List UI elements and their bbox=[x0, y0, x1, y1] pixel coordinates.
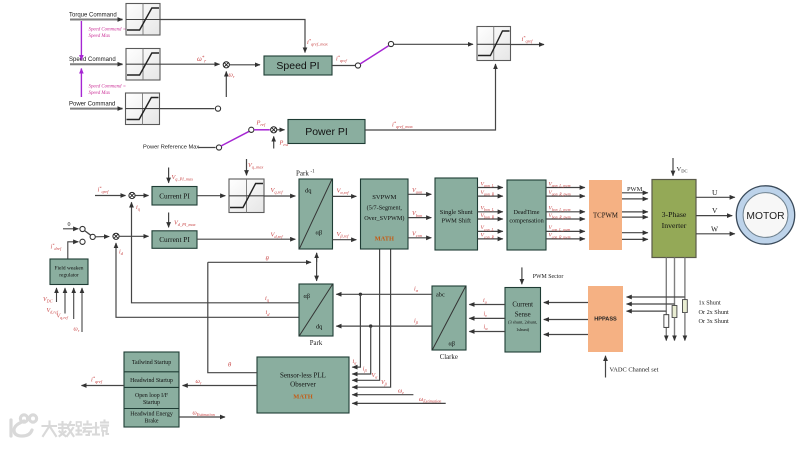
svg-text:Speed Command =: Speed Command = bbox=[89, 85, 127, 90]
svg-text:Sense: Sense bbox=[515, 312, 531, 319]
svg-text:iu: iu bbox=[483, 298, 487, 305]
svg-text:Headwind Energy: Headwind Energy bbox=[130, 412, 173, 418]
svg-text:Vq,ref: Vq,ref bbox=[271, 187, 284, 196]
svg-text:Pest: Pest bbox=[279, 140, 289, 148]
svg-text:iv: iv bbox=[484, 311, 488, 318]
svg-text:Vd_PI_max: Vd_PI_max bbox=[174, 220, 196, 228]
svg-text:iw: iw bbox=[484, 324, 489, 331]
svg-text:Vbon: Vbon bbox=[412, 210, 422, 218]
svg-text:V: V bbox=[712, 206, 718, 215]
svg-text:Current PI: Current PI bbox=[159, 235, 190, 244]
svg-text:Vaon: Vaon bbox=[412, 187, 422, 195]
svg-text:Pref: Pref bbox=[256, 120, 266, 128]
svg-text:i*qref_max: i*qref_max bbox=[307, 38, 328, 47]
svg-text:U: U bbox=[712, 188, 718, 197]
svg-text:(5/7-Segment,: (5/7-Segment, bbox=[367, 205, 403, 212]
svg-text:-1: -1 bbox=[311, 170, 316, 175]
svg-text:iβ: iβ bbox=[414, 317, 419, 325]
svg-text:Field weaken: Field weaken bbox=[55, 266, 84, 272]
svg-text:i*qref: i*qref bbox=[522, 35, 534, 44]
svg-text:SVPWM: SVPWM bbox=[372, 194, 396, 201]
svg-text:DeadTime: DeadTime bbox=[514, 209, 540, 216]
svg-text:αβ: αβ bbox=[316, 230, 323, 237]
svg-text:dq: dq bbox=[305, 188, 312, 195]
svg-text:Open loop I/F: Open loop I/F bbox=[135, 393, 169, 399]
svg-text:MOTOR: MOTOR bbox=[746, 211, 784, 222]
svg-text:W: W bbox=[711, 224, 719, 233]
svg-text:Current PI: Current PI bbox=[159, 192, 190, 201]
svg-text:abc: abc bbox=[436, 292, 445, 299]
svg-text:id: id bbox=[266, 309, 271, 317]
svg-text:VDC: VDC bbox=[677, 166, 688, 174]
svg-text:θ: θ bbox=[228, 362, 232, 369]
svg-text:Vβ: Vβ bbox=[381, 380, 388, 387]
svg-text:1shunt): 1shunt) bbox=[516, 327, 530, 332]
svg-text:id: id bbox=[119, 249, 124, 257]
svg-text:Observer: Observer bbox=[290, 381, 316, 389]
svg-text:Vq_PI_max: Vq_PI_max bbox=[172, 174, 194, 182]
svg-text:PWM Sector: PWM Sector bbox=[533, 274, 564, 280]
svg-text:i*qref: i*qref bbox=[91, 375, 103, 384]
svg-text:Vaon_L_pwm: Vaon_L_pwm bbox=[549, 181, 571, 188]
svg-text:Headwind Startup: Headwind Startup bbox=[130, 378, 173, 384]
svg-text:Vaon_L: Vaon_L bbox=[481, 181, 494, 188]
svg-text:Speed Max: Speed Max bbox=[89, 91, 111, 96]
svg-text:ωEstimation: ωEstimation bbox=[419, 397, 441, 404]
svg-text:i*qref: i*qref bbox=[98, 185, 110, 194]
svg-text:ωe: ωe bbox=[398, 388, 404, 395]
svg-text:Brake: Brake bbox=[144, 418, 158, 424]
svg-text:i*qref_max: i*qref_max bbox=[392, 120, 413, 129]
svg-text:Park: Park bbox=[296, 170, 309, 178]
svg-text:ωEstimation: ωEstimation bbox=[193, 411, 215, 418]
svg-text:PWM Shift: PWM Shift bbox=[442, 218, 472, 225]
svg-text:Sensor-less PLL: Sensor-less PLL bbox=[280, 372, 326, 380]
svg-text:Torque Command: Torque Command bbox=[69, 13, 117, 19]
svg-text:0: 0 bbox=[68, 222, 71, 228]
svg-text:MATH: MATH bbox=[375, 236, 394, 243]
svg-text:Vα: Vα bbox=[372, 373, 379, 380]
svg-text:Vcon_L: Vcon_L bbox=[481, 225, 494, 232]
svg-text:TCPWM: TCPWM bbox=[593, 213, 618, 220]
svg-text:Vβ,ref: Vβ,ref bbox=[337, 231, 350, 240]
svg-text:Or 2x Shunt: Or 2x Shunt bbox=[699, 309, 730, 316]
svg-text:ω*r: ω*r bbox=[197, 56, 206, 65]
svg-text:3-Phase: 3-Phase bbox=[662, 210, 687, 219]
svg-text:Vq,ref: Vq,ref bbox=[57, 314, 69, 322]
svg-text:Startup: Startup bbox=[143, 400, 160, 406]
svg-text:Vcon: Vcon bbox=[412, 230, 422, 238]
svg-text:i*qref: i*qref bbox=[336, 54, 348, 63]
svg-text:Park: Park bbox=[310, 340, 323, 347]
svg-text:Vaon_R_pwm: Vaon_R_pwm bbox=[549, 190, 571, 197]
svg-text:iβ: iβ bbox=[363, 367, 368, 374]
svg-text:Inverter: Inverter bbox=[662, 221, 687, 230]
svg-text:Speed PI: Speed PI bbox=[276, 60, 319, 72]
svg-text:iα: iα bbox=[414, 285, 419, 293]
svg-text:PWM: PWM bbox=[627, 186, 643, 193]
svg-text:regulator: regulator bbox=[59, 273, 79, 279]
svg-text:i*dref: i*dref bbox=[51, 242, 63, 251]
svg-text:ωr: ωr bbox=[196, 378, 202, 386]
svg-text:Vcon_L_pwm: Vcon_L_pwm bbox=[549, 225, 571, 232]
svg-text:iα: iα bbox=[353, 359, 358, 366]
svg-text:iq: iq bbox=[265, 295, 270, 303]
svg-text:Vbon_R_pwm: Vbon_R_pwm bbox=[549, 213, 571, 220]
svg-text:αβ: αβ bbox=[449, 341, 456, 348]
svg-text:ωr: ωr bbox=[74, 327, 80, 334]
svg-text:αβ: αβ bbox=[304, 293, 311, 300]
svg-text:Power Reference Max: Power Reference Max bbox=[143, 144, 199, 150]
svg-text:1x Shunt: 1x Shunt bbox=[699, 300, 721, 307]
svg-text:Vbon_L_pwm: Vbon_L_pwm bbox=[549, 206, 571, 213]
svg-text:HPPASS: HPPASS bbox=[594, 317, 617, 323]
svg-text:Power Command: Power Command bbox=[69, 102, 115, 108]
svg-text:Speed Command: Speed Command bbox=[69, 57, 116, 63]
svg-text:MATH: MATH bbox=[293, 394, 312, 401]
svg-text:Clarke: Clarke bbox=[440, 354, 458, 361]
svg-text:Vcon_R: Vcon_R bbox=[481, 233, 495, 240]
svg-text:VDC: VDC bbox=[43, 297, 53, 304]
svg-text:Power PI: Power PI bbox=[305, 126, 348, 138]
svg-text:Or 3x Shunt: Or 3x Shunt bbox=[699, 318, 730, 325]
svg-text:dq: dq bbox=[316, 324, 323, 331]
svg-text:Vbon_L: Vbon_L bbox=[481, 206, 494, 213]
svg-text:compensation: compensation bbox=[509, 218, 543, 225]
svg-text:iq: iq bbox=[136, 204, 141, 212]
svg-text:Vaon_R: Vaon_R bbox=[481, 190, 495, 197]
svg-text:Current: Current bbox=[512, 302, 533, 309]
svg-text:Vcon_R_pwm: Vcon_R_pwm bbox=[549, 233, 571, 240]
svg-text:Vα,ref: Vα,ref bbox=[337, 188, 350, 197]
svg-text:Vbon_R: Vbon_R bbox=[481, 213, 495, 220]
svg-text:VADC Channel set: VADC Channel set bbox=[610, 367, 659, 374]
svg-text:ωr: ωr bbox=[229, 72, 235, 80]
svg-text:Vq_max: Vq_max bbox=[248, 162, 263, 170]
svg-text:Over_SVPWM): Over_SVPWM) bbox=[364, 215, 404, 222]
svg-text:θ: θ bbox=[266, 256, 270, 263]
svg-text:Speed Max: Speed Max bbox=[89, 34, 111, 39]
svg-text:Speed Command =: Speed Command = bbox=[89, 28, 127, 33]
svg-text:Single Shunt: Single Shunt bbox=[440, 209, 473, 216]
svg-text:Tailwind Startup: Tailwind Startup bbox=[132, 360, 171, 366]
